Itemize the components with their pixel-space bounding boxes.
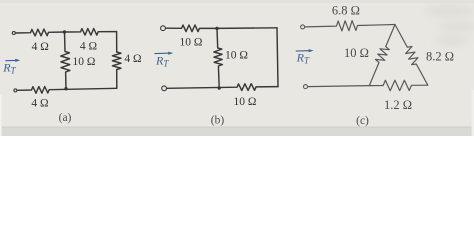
svg-text:8.2 Ω: 8.2 Ω: [426, 50, 454, 64]
svg-text:4 Ω: 4 Ω: [124, 53, 141, 65]
svg-text:10 Ω: 10 Ω: [72, 56, 95, 68]
svg-text:10 Ω: 10 Ω: [225, 50, 248, 62]
svg-text:(c): (c): [356, 115, 369, 127]
svg-text:1.2 Ω: 1.2 Ω: [384, 98, 412, 112]
svg-text:6.8 Ω: 6.8 Ω: [332, 3, 360, 17]
svg-text:4 Ω: 4 Ω: [31, 97, 48, 109]
svg-text:10 Ω: 10 Ω: [344, 46, 369, 60]
svg-text:10 Ω: 10 Ω: [180, 36, 203, 48]
svg-text:(b): (b): [211, 114, 225, 126]
svg-text:4 Ω: 4 Ω: [80, 41, 97, 53]
svg-text:(a): (a): [59, 112, 72, 124]
svg-text:4 Ω: 4 Ω: [32, 41, 49, 53]
svg-text:10 Ω: 10 Ω: [233, 96, 256, 108]
